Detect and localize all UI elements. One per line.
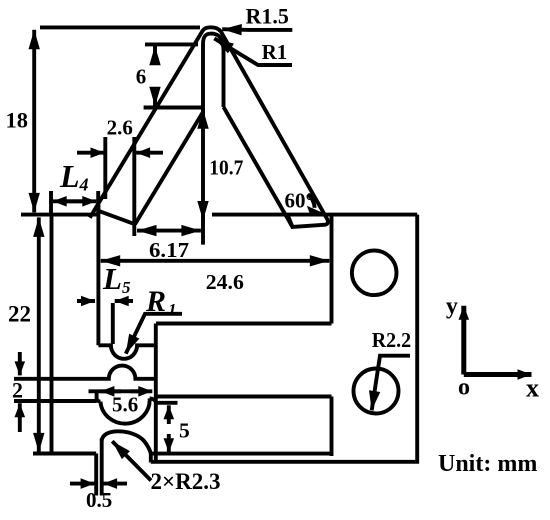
svg-text:18: 18 (6, 107, 29, 132)
svg-text:R2.2: R2.2 (372, 328, 412, 352)
svg-text:5: 5 (179, 419, 190, 443)
svg-text:2×R2.3: 2×R2.3 (151, 469, 221, 494)
svg-text:6: 6 (136, 64, 147, 88)
svg-text:0.5: 0.5 (86, 488, 112, 512)
svg-text:2: 2 (12, 378, 23, 403)
svg-text:Unit: mm: Unit: mm (438, 451, 537, 477)
svg-text:y: y (446, 294, 458, 320)
svg-text:5.6: 5.6 (112, 392, 138, 416)
svg-text:24.6: 24.6 (206, 270, 244, 294)
svg-text:R1: R1 (145, 285, 177, 319)
svg-text:L5: L5 (102, 261, 131, 297)
svg-text:22: 22 (8, 302, 31, 327)
svg-text:x: x (526, 374, 539, 403)
svg-text:o: o (458, 375, 470, 401)
svg-text:R1.5: R1.5 (246, 4, 289, 29)
svg-text:10.7: 10.7 (209, 155, 243, 179)
svg-text:60°: 60° (285, 189, 314, 213)
svg-text:6.17: 6.17 (149, 238, 189, 262)
svg-text:L4: L4 (59, 158, 89, 195)
svg-text:2.6: 2.6 (107, 116, 133, 140)
svg-text:R1: R1 (262, 40, 288, 64)
